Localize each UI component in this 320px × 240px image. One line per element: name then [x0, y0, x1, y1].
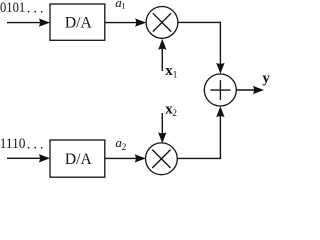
svg-text:1110: 1110: [0, 136, 25, 152]
svg-text:. . .: . . .: [27, 136, 44, 152]
multiplier M1 X symbol: [153, 13, 171, 31]
wire: D/A 1 output to multiplier 1: [105, 22, 137, 24]
svg-text:1: 1: [121, 1, 125, 11]
arrowhead: into adder top: [216, 63, 224, 74]
arrowhead: into adder bottom: [216, 106, 224, 117]
wire: carrier x2 down into multiplier 2: [161, 113, 163, 135]
wire: input 1 into D/A converter 1: [7, 22, 41, 24]
arrowhead: into multiplier 1: [135, 18, 146, 26]
svg-text:1: 1: [173, 70, 178, 80]
svg-text:2: 2: [122, 143, 127, 153]
multiplier M2 X symbol: [152, 150, 170, 168]
svg-text:. . .: . . .: [27, 0, 44, 16]
arrowhead: into multiplier 2: [135, 154, 146, 162]
wire: input 2 into D/A converter 2: [7, 157, 41, 159]
wire: multiplier 2 output right then up to adder: [177, 115, 220, 158]
wire: carrier x1 up into multiplier 1: [161, 48, 163, 71]
adder circle: [204, 74, 236, 106]
arrowhead: input 1 into D/A 1: [39, 18, 50, 26]
svg-text:D/A: D/A: [65, 15, 93, 32]
wire: multiplier 1 output right then down to adder: [178, 22, 221, 65]
multiplier M2 circle: [146, 143, 178, 175]
svg-text:0101: 0101: [0, 0, 25, 16]
svg-text:2: 2: [172, 109, 177, 119]
multiplier M1 circle: [146, 7, 178, 39]
adder plus symbol: [210, 80, 230, 100]
svg-text:D/A: D/A: [65, 151, 93, 168]
arrowhead: output y: [253, 86, 264, 94]
arrowhead: input 2 into D/A 2: [39, 154, 50, 162]
wire: D/A 2 output to multiplier 2: [105, 157, 137, 159]
arrowhead: x1 into multiplier 1 bottom: [158, 39, 166, 50]
svg-text:y: y: [262, 71, 270, 87]
block: D/A converter 1: [50, 4, 105, 40]
arrowhead: x2 into multiplier 2 top: [158, 132, 166, 143]
wire: adder output: [236, 89, 255, 91]
block: D/A converter 2: [50, 140, 105, 177]
